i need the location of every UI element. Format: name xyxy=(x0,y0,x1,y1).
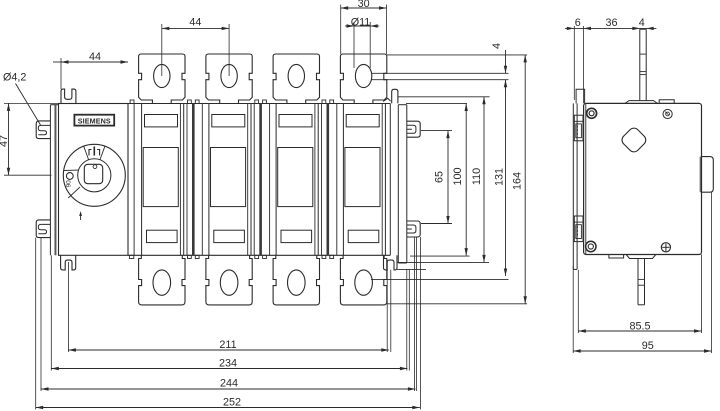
dimension 100 xyxy=(465,104,467,256)
bottom terminal tab 1 xyxy=(139,255,185,305)
dimension 47 xyxy=(4,102,58,104)
pole 2 top window xyxy=(212,115,245,127)
svg-text:47: 47 xyxy=(0,135,10,147)
svg-text:Ø11: Ø11 xyxy=(351,17,371,29)
inter-pole barrier lines 2 xyxy=(253,104,255,256)
svg-text:131: 131 xyxy=(494,168,506,186)
side view central shaft opening xyxy=(620,126,648,154)
bottom terminal tab 2 xyxy=(206,255,252,305)
inter-pole barrier lines 3 xyxy=(321,104,323,256)
right foot lower edge extension xyxy=(397,268,426,270)
pole 1 bottom window xyxy=(147,230,178,242)
screw top-left xyxy=(587,108,597,118)
pole 1 main window xyxy=(143,148,178,207)
side view bottom dimension 95 xyxy=(572,266,574,353)
bottom terminal tab 4 xyxy=(340,255,386,305)
dimension O11 (tab hole) xyxy=(353,22,355,68)
dimension 110 xyxy=(483,97,485,263)
base edge lugs xyxy=(188,100,192,104)
dimension 244 xyxy=(41,388,415,390)
svg-text:44: 44 xyxy=(89,51,101,63)
top terminal tab 3 xyxy=(273,54,319,104)
side view top dimensions 6 36 4 xyxy=(573,26,575,100)
top terminal tab 1 xyxy=(139,54,185,104)
base moulding bottom edge xyxy=(128,254,390,256)
right bracket top hook xyxy=(407,121,420,137)
top tab 1 oval hole xyxy=(154,64,170,87)
top tab 4 oval hole xyxy=(355,64,371,87)
svg-text:100: 100 xyxy=(452,167,464,185)
side view top rail clip xyxy=(574,115,583,141)
dimension 44 (left, escutcheon to tab) xyxy=(60,58,62,89)
pole 4 main window xyxy=(345,148,380,207)
escutcheon handle plate xyxy=(59,104,129,256)
screw bottom-left xyxy=(586,241,596,251)
SIEMENS logo plate xyxy=(74,115,114,126)
top tab 2 oval hole xyxy=(221,64,237,87)
side view bottom rail clip xyxy=(574,216,583,242)
side terminal shroud protrusion xyxy=(702,157,714,193)
pole 3 top window xyxy=(279,115,312,127)
base right edge xyxy=(389,104,391,256)
right mounting foot with U-notch xyxy=(384,255,398,270)
side view top small block xyxy=(659,100,674,104)
left bracket plate xyxy=(54,105,56,256)
inter-pole barrier lines 1 xyxy=(186,104,188,256)
svg-text:211: 211 xyxy=(219,339,236,351)
bottom extension lines xyxy=(67,262,69,352)
handle shaft recess square xyxy=(84,164,102,183)
right top mounting foot xyxy=(392,89,398,103)
side view lower shaft xyxy=(637,259,639,305)
screw top-right xyxy=(663,109,672,118)
right bracket bottom hook xyxy=(407,221,420,237)
svg-text:44: 44 xyxy=(189,16,201,28)
bottom tab 4 oval hole xyxy=(355,270,373,295)
left bracket top hook with slot xyxy=(36,121,50,139)
dimension 44 (top, pole pitch) xyxy=(161,24,163,76)
dimension 252 xyxy=(36,407,420,409)
screw bottom-right xyxy=(661,243,670,252)
side view top mounting tab xyxy=(576,89,585,103)
rotary handle outer circle xyxy=(63,144,125,206)
svg-text:234: 234 xyxy=(219,358,237,370)
dimension 30 (tab width) xyxy=(340,5,342,55)
side view bottom boss block xyxy=(626,255,656,259)
svg-text:SIEMENS: SIEMENS xyxy=(78,116,111,125)
pole 4 bottom window xyxy=(348,230,379,242)
pole 4 top window xyxy=(346,115,379,127)
pole 1 top window xyxy=(145,115,178,127)
recess top pin hole xyxy=(93,165,97,169)
svg-text:95: 95 xyxy=(642,340,654,352)
base left gap line xyxy=(133,104,135,256)
bottom tab 3 oval hole xyxy=(288,270,306,295)
side view bottom dimension 85.5 xyxy=(577,270,579,333)
dimension 65 xyxy=(447,131,449,224)
dimension 211 xyxy=(68,349,388,351)
bottom terminal tab 3 xyxy=(273,255,319,305)
bottom tab 1 oval hole xyxy=(153,270,171,295)
top terminal tab 2 xyxy=(206,54,252,104)
svg-text:244: 244 xyxy=(220,378,238,390)
handle ON wedge xyxy=(100,146,105,160)
pole cover 4 xyxy=(342,104,344,256)
pole cover 3 xyxy=(275,104,277,256)
svg-text:30: 30 xyxy=(358,0,370,10)
right bracket strip xyxy=(397,105,399,263)
escutcheon top mounting foot with U-notch xyxy=(61,89,76,103)
extension lines right of tab 4 xyxy=(387,54,527,56)
svg-text:Ø4,2: Ø4,2 xyxy=(3,72,26,84)
svg-text:65: 65 xyxy=(433,171,445,183)
side view bottom small block xyxy=(609,255,624,259)
side view body xyxy=(584,103,702,254)
side view upper shaft xyxy=(639,29,641,100)
rotary handle inner circle xyxy=(78,159,111,192)
svg-text:164: 164 xyxy=(512,172,524,190)
pole 2 main window xyxy=(211,148,246,207)
pole 3 main window xyxy=(278,148,313,207)
OFF position symbol O xyxy=(66,173,73,180)
side view shaft boss block top xyxy=(625,101,658,104)
pointer arrow below handle xyxy=(80,214,82,221)
svg-text:85.5: 85.5 xyxy=(629,321,650,333)
ON position symbol xyxy=(93,147,95,156)
dimension 234 xyxy=(51,368,407,370)
bottom tab 2 oval hole xyxy=(220,270,238,295)
top tab 3 oval hole xyxy=(288,64,304,87)
left bracket bottom hook with slot xyxy=(36,220,50,238)
pole 2 bottom window xyxy=(214,230,245,242)
svg-text:4: 4 xyxy=(639,17,645,29)
pole cover 1 xyxy=(141,104,143,256)
handle OFF wedge xyxy=(64,169,79,171)
svg-text:36: 36 xyxy=(605,17,617,29)
top terminal tab 4 xyxy=(340,54,386,104)
svg-text:90: 90 xyxy=(65,180,72,188)
pole 3 bottom window xyxy=(281,230,312,242)
svg-text:6: 6 xyxy=(575,17,581,29)
escutcheon bottom mounting foot with U-notch xyxy=(61,255,76,270)
side view front flange xyxy=(572,103,574,269)
base moulding top edge xyxy=(128,103,390,105)
svg-text:252: 252 xyxy=(223,397,241,409)
pole cover 2 xyxy=(208,104,210,256)
dimension 131 xyxy=(505,80,507,276)
dimension 164 xyxy=(524,55,526,304)
svg-text:4: 4 xyxy=(491,43,503,49)
svg-text:110: 110 xyxy=(471,168,483,185)
